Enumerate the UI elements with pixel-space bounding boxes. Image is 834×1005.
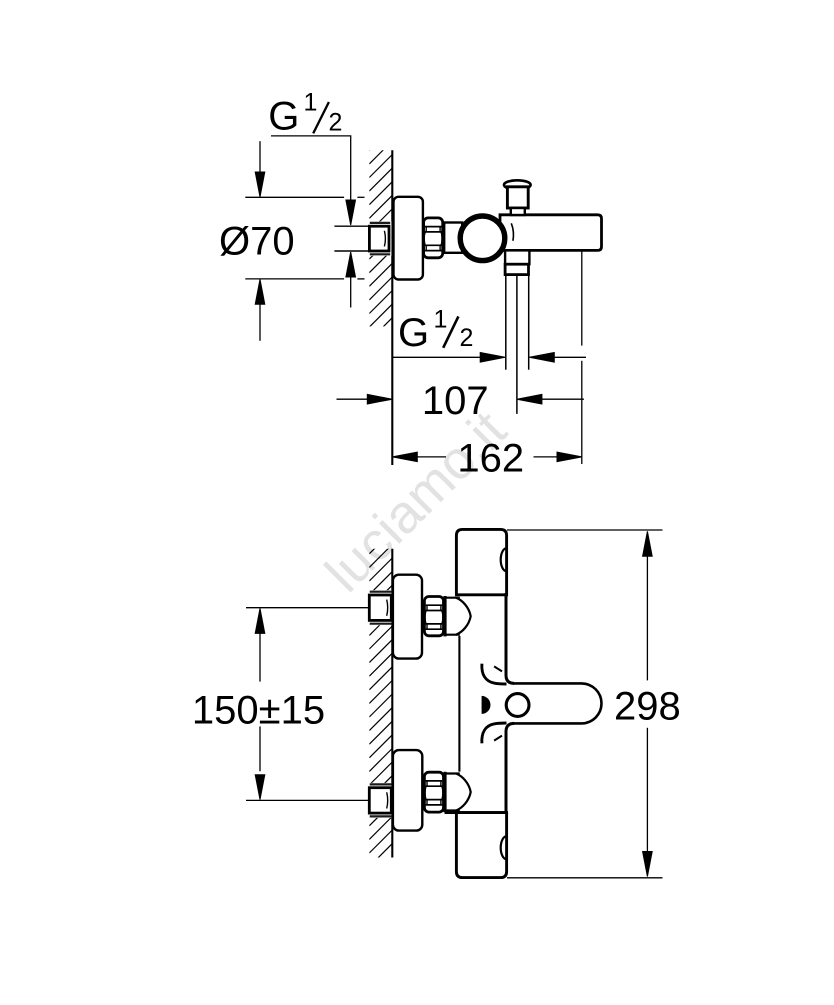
- svg-text:2: 2: [460, 324, 474, 352]
- upper hook: [482, 664, 507, 684]
- hose lines: [505, 275, 507, 370]
- dim 298 ext lines: [507, 529, 663, 531]
- handle knob ring: [506, 694, 529, 717]
- supply pipe stub: [334, 225, 369, 227]
- svg-text:G: G: [398, 311, 429, 355]
- upper 150 ext line: [246, 607, 369, 609]
- svg-text:107: 107: [422, 379, 489, 423]
- ext line: escutcheon bottom (dashed): [245, 278, 344, 280]
- spout fillet arc: [511, 223, 513, 241]
- lower hook: [482, 723, 507, 743]
- svg-text:1: 1: [304, 89, 318, 117]
- ext line from spout right edge: [581, 251, 583, 345]
- dim 150±15: [255, 608, 265, 633]
- dim hose G1/2 arrows: [393, 356, 482, 358]
- upper bell socket: [443, 596, 446, 636]
- wall hatching (top view): [369, 127, 392, 354]
- lower knob arc: [501, 836, 507, 859]
- dim 162: [392, 452, 417, 462]
- svg-text:Ø70: Ø70: [219, 220, 295, 264]
- svg-text:298: 298: [614, 685, 681, 729]
- handle pin (filled): [482, 696, 491, 714]
- mixer body / spout (top view): [500, 215, 602, 251]
- svg-text:162: 162: [457, 436, 524, 480]
- body upper housing: [456, 529, 506, 594]
- svg-text:G: G: [268, 94, 299, 138]
- upper knob arc: [501, 548, 507, 571]
- body front edge lower segment: [506, 723, 514, 814]
- union nut (top view): [424, 218, 443, 258]
- valve body circle: [460, 216, 505, 261]
- leader bracket G1/2 upper: [271, 136, 351, 201]
- dim 107: [337, 398, 370, 400]
- body front edge upper segment: [506, 593, 514, 683]
- escutcheon flange (top view): [394, 197, 423, 280]
- shower outlet block: [505, 250, 529, 264]
- lower escutcheon: [393, 750, 422, 831]
- lower union nut: [424, 772, 443, 812]
- svg-text:150±15: 150±15: [192, 688, 325, 732]
- diverter knob neck: [511, 208, 525, 215]
- lower 150 ext line: [246, 799, 369, 801]
- body middle strip left edge: [458, 636, 460, 772]
- upper union nut: [424, 597, 443, 636]
- wall line (bottom view): [391, 549, 393, 858]
- dim 298: [643, 531, 653, 556]
- ext line: escutcheon top (dashed): [245, 196, 344, 198]
- hose nut: [505, 264, 528, 274]
- upper S-union square: [369, 590, 392, 625]
- upper escutcheon: [393, 575, 422, 659]
- connector cylinder: [444, 223, 462, 253]
- svg-text:2: 2: [329, 109, 343, 137]
- wall hatching (bottom view): [369, 531, 392, 894]
- svg-text:1: 1: [434, 305, 448, 333]
- dim Ø70 vertical line + arrows: [259, 141, 261, 172]
- pipe union square (in wall): [369, 221, 392, 255]
- wall line (top view): [391, 150, 393, 465]
- boss line to lower housing: [445, 811, 507, 814]
- lower S-union square: [369, 783, 392, 818]
- lower bell socket: [443, 772, 446, 812]
- handle stadium loop: [513, 683, 602, 723]
- diverter knob trunk: [507, 187, 528, 208]
- body lower housing: [456, 813, 506, 878]
- diverter knob cap: [504, 180, 531, 189]
